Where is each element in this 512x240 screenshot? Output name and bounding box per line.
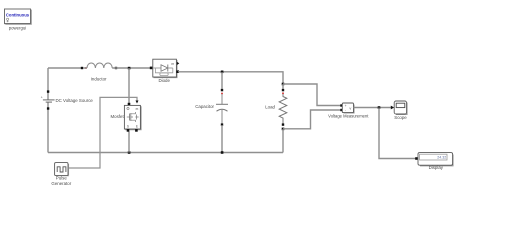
svg-text:m: m [171,62,174,66]
wire diode to load corner [178,72,283,84]
node junction capacitor top [221,71,224,74]
DC Voltage Source V1 [41,90,55,109]
diode D1 [150,59,180,77]
gate arrowhead [136,101,139,104]
svg-text:+: + [345,104,347,108]
svg-text:-: - [345,109,346,113]
svg-text:S: S [127,125,129,129]
wire bottom rail [48,152,283,154]
svg-text:24.32: 24.32 [437,156,446,160]
wire VM output to scope [354,107,392,109]
node junction mosfet source on rail [128,151,131,154]
svg-text:DC Voltage Source: DC Voltage Source [56,98,94,103]
powergui block [5,9,32,24]
scope [394,101,407,115]
scope input arrowhead [391,106,394,110]
display [418,153,453,166]
svg-text:powergui: powergui [9,25,26,30]
svg-text:Diode: Diode [158,78,170,83]
svg-text:Capacitor: Capacitor [195,104,214,109]
svg-text:Load: Load [265,104,275,109]
svg-text:Inductor: Inductor [91,76,107,81]
wire load top to VM plus [283,84,342,106]
svg-text:E: E [136,125,138,129]
node junction scope/display [378,106,381,109]
wire inductor to diode [83,67,150,69]
node junction top (mosfet drain tap) [128,67,131,70]
svg-text:Generator: Generator [51,181,71,186]
voltage measurement U2 [340,103,354,113]
wire top rail left [48,67,81,69]
svg-text:Scope: Scope [394,115,407,120]
svg-text:Voltage Measurement: Voltage Measurement [328,114,369,119]
wire capacitor drop [221,72,223,90]
svg-text:Display: Display [429,165,444,170]
node junction load bottom [282,128,285,131]
wire mosfet drain drop [128,68,130,103]
wire gate from pulse generator [69,97,138,168]
svg-text:+: + [41,95,43,99]
svg-text:v: v [349,107,351,111]
wire junction to display [379,108,416,159]
svg-text:Mosfet: Mosfet [111,114,125,119]
inductor L1 [81,63,117,69]
wire left rail [47,68,49,153]
node junction load top [282,83,285,86]
wire capacitor to bottom rail [221,125,223,153]
node junction capacitor on rail [221,151,224,154]
wire mosfet source to rail [128,132,130,153]
display input port [415,157,418,160]
transistor Q1 Mosfet block [124,103,141,132]
svg-text:m: m [136,107,139,111]
load R1 [279,84,287,126]
svg-text:Continuous: Continuous [6,12,30,17]
wire load bottom to rail [282,129,284,153]
pulse generator [55,163,69,176]
wire load bottom to VM minus [283,110,342,129]
capacitor C1 [216,89,228,126]
